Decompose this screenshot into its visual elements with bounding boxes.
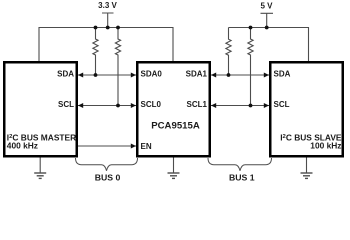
svg-text:SDA: SDA <box>274 70 291 79</box>
svg-text:SCL: SCL <box>274 100 290 109</box>
PCA9515A box <box>137 62 210 156</box>
supply 3.3 V <box>98 1 117 27</box>
I2C bus slave box <box>270 62 343 156</box>
ground (slave) <box>301 158 313 179</box>
wire EN <box>78 143 136 148</box>
svg-text:EN: EN <box>141 142 152 151</box>
junction on 3.3V rail at R2 <box>116 26 120 30</box>
svg-text:BUS 0: BUS 0 <box>95 173 121 183</box>
svg-text:SCL0: SCL0 <box>141 100 162 109</box>
svg-text:3.3 V: 3.3 V <box>98 1 117 10</box>
junction on 3.3V rail at supply <box>106 26 110 30</box>
resistor R2 (SCL bus0 pull-up) <box>115 28 120 106</box>
brace BUS 1 <box>208 158 272 171</box>
ground (master) <box>34 158 46 179</box>
svg-text:400 kHz: 400 kHz <box>7 141 38 151</box>
wire SCL bus 1 <box>211 103 269 108</box>
label I2C BUS SLAVE 100 kHz <box>280 132 342 150</box>
junction on 3.3V rail at R1 <box>94 26 98 30</box>
svg-text:PCA9515A: PCA9515A <box>151 121 200 132</box>
svg-text:SCL: SCL <box>58 100 74 109</box>
wire 3.3 V rail <box>39 28 173 62</box>
resistor R1 (SDA bus0 pull-up) <box>93 28 98 76</box>
wire SCL bus 0 <box>78 103 136 108</box>
label I2C BUS MASTER 400 kHz <box>7 132 76 150</box>
junction on 5V rail at supply <box>265 26 269 30</box>
svg-text:SDA: SDA <box>57 70 74 79</box>
resistor R3 (SDA bus1 pull-up) <box>226 28 231 76</box>
ground (PCA9515A) <box>168 158 180 179</box>
junction SCL bus0 / R2 <box>116 104 120 108</box>
junction SCL bus1 / R4 <box>249 104 253 108</box>
junction SDA bus1 / R3 <box>227 73 231 77</box>
svg-text:SDA0: SDA0 <box>141 70 163 79</box>
brace BUS 0 <box>76 158 138 171</box>
svg-text:SCL1: SCL1 <box>187 100 208 109</box>
resistor R4 (SCL bus1 pull-up) <box>248 28 253 106</box>
supply 5 V <box>260 1 273 27</box>
wire 5 V rail <box>229 28 309 62</box>
svg-text:BUS 1: BUS 1 <box>229 173 255 183</box>
junction SDA bus0 / R1 <box>94 73 98 77</box>
junction on 5V rail at R4 <box>249 26 253 30</box>
I2C bus master box <box>4 62 77 156</box>
wire SDA bus 0 <box>78 72 136 77</box>
svg-text:5 V: 5 V <box>260 1 273 10</box>
svg-text:SDA1: SDA1 <box>186 70 208 79</box>
svg-text:100 kHz: 100 kHz <box>310 141 341 151</box>
wire SDA bus 1 <box>211 72 269 77</box>
